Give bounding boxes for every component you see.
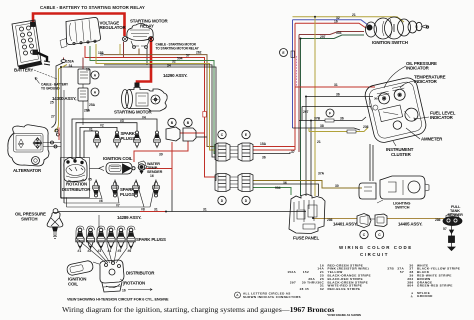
svg-text:30 THRU: 30 THRU xyxy=(302,280,318,284)
svg-text:32: 32 xyxy=(172,60,176,64)
svg-text:#1: #1 xyxy=(78,249,82,253)
svg-text:36: 36 xyxy=(336,93,340,97)
svg-text:CABLE - BATTERY TO STARTING MO: CABLE - BATTERY TO STARTING MOTOR RELAY xyxy=(40,5,145,10)
svg-text:297: 297 xyxy=(290,280,296,284)
svg-text:F: F xyxy=(329,111,331,115)
svg-text:#5: #5 xyxy=(88,178,92,182)
svg-text:504: 504 xyxy=(336,31,342,35)
svg-text:24: 24 xyxy=(69,64,73,68)
svg-text:31: 31 xyxy=(154,208,158,212)
svg-text:286: 286 xyxy=(435,218,441,222)
svg-text:10: 10 xyxy=(86,68,90,72)
svg-text:INDICATOR: INDICATOR xyxy=(406,66,430,71)
svg-text:PLUGS: PLUGS xyxy=(120,192,135,197)
svg-text:Wiring diagram for the ignitio: Wiring diagram for the ignition, startin… xyxy=(62,305,334,314)
svg-text:#6: #6 xyxy=(128,249,132,253)
svg-text:DISTRIBUTOR: DISTRIBUTOR xyxy=(62,187,91,192)
svg-text:DISTRIBUTOR: DISTRIBUTOR xyxy=(126,271,155,276)
svg-text:#1: #1 xyxy=(89,128,93,132)
svg-text:25: 25 xyxy=(50,101,54,105)
svg-text:GROUND: GROUND xyxy=(417,294,433,298)
svg-text:STARTING MOTOR: STARTING MOTOR xyxy=(114,110,152,115)
svg-text:37: 37 xyxy=(291,150,295,154)
svg-text:152: 152 xyxy=(303,270,309,274)
svg-text:31: 31 xyxy=(203,208,207,212)
svg-text:ROTATION: ROTATION xyxy=(66,182,87,187)
svg-text:#5: #5 xyxy=(118,249,122,253)
svg-text:SHOWN INDICATE CONNECTORS: SHOWN INDICATE CONNECTORS xyxy=(243,295,301,299)
svg-text:504: 504 xyxy=(177,57,183,61)
svg-text:SPARK PLUGS: SPARK PLUGS xyxy=(136,237,166,242)
svg-text:34: 34 xyxy=(167,63,171,67)
svg-text:36: 36 xyxy=(283,181,287,185)
svg-text:14290 ASSY.: 14290 ASSY. xyxy=(163,73,187,78)
svg-text:ROTATION: ROTATION xyxy=(124,281,145,286)
svg-text:FUSE PANEL: FUSE PANEL xyxy=(293,236,319,241)
svg-text:RED-BLUE STRIPE: RED-BLUE STRIPE xyxy=(328,287,361,291)
svg-text:904: 904 xyxy=(275,186,281,190)
svg-text:⊥: ⊥ xyxy=(410,294,413,298)
svg-text:#8: #8 xyxy=(141,207,145,211)
svg-text:#3: #3 xyxy=(120,119,124,123)
svg-text:236: 236 xyxy=(363,125,369,129)
svg-text:21: 21 xyxy=(352,13,356,17)
svg-text:VIEW SHOWING HI-TENSION CIRCUI: VIEW SHOWING HI-TENSION CIRCUIT FOR 6 CY… xyxy=(67,298,169,302)
svg-text:297: 297 xyxy=(303,110,309,114)
svg-text:SWITCH: SWITCH xyxy=(21,217,37,222)
svg-text:25A: 25A xyxy=(89,103,96,107)
svg-text:32: 32 xyxy=(320,287,324,291)
svg-text:14401 ASSY.: 14401 ASSY. xyxy=(333,222,357,227)
svg-text:IGNITION SWITCH: IGNITION SWITCH xyxy=(372,40,408,45)
svg-text:REGULATOR: REGULATOR xyxy=(100,25,127,30)
svg-text:31: 31 xyxy=(334,83,338,87)
svg-text:16: 16 xyxy=(334,20,338,24)
svg-text:AMMETER: AMMETER xyxy=(421,137,443,142)
svg-text:*OVER ENGINE AS SHOWN: *OVER ENGINE AS SHOWN xyxy=(327,313,361,317)
svg-text:14405 ASSY.: 14405 ASSY. xyxy=(398,222,422,227)
svg-text:286: 286 xyxy=(327,218,333,222)
svg-text:37A: 37A xyxy=(318,172,325,176)
svg-text:A: A xyxy=(236,293,239,297)
svg-text:SWITCH: SWITCH xyxy=(395,206,410,210)
svg-text:36: 36 xyxy=(262,156,266,160)
svg-text:15A: 15A xyxy=(260,142,267,146)
svg-text:#2: #2 xyxy=(100,123,104,127)
svg-text:297: 297 xyxy=(320,35,326,39)
svg-text:57: 57 xyxy=(186,54,190,58)
svg-text:28 45: 28 45 xyxy=(300,287,309,291)
svg-text:904: 904 xyxy=(407,284,413,288)
svg-text:COIL: COIL xyxy=(68,282,78,287)
svg-text:#2: #2 xyxy=(88,249,92,253)
svg-text:152A: 152A xyxy=(287,270,296,274)
svg-text:14300 ASSY,: 14300 ASSY, xyxy=(52,96,76,101)
svg-text:GREEN-RED STRIPE: GREEN-RED STRIPE xyxy=(417,284,453,288)
svg-text:CIRCUIT: CIRCUIT xyxy=(360,252,389,257)
svg-text:16: 16 xyxy=(122,288,126,292)
svg-text:16: 16 xyxy=(150,174,154,178)
svg-text:37B: 37B xyxy=(387,267,394,271)
svg-text:#6: #6 xyxy=(99,199,103,203)
svg-text:26A: 26A xyxy=(84,109,91,113)
svg-text:INDICATOR: INDICATOR xyxy=(414,79,438,84)
svg-text:153: 153 xyxy=(98,51,104,55)
svg-text:27: 27 xyxy=(51,115,55,119)
svg-text:CLUSTER: CLUSTER xyxy=(391,152,412,157)
svg-text:#7: #7 xyxy=(116,203,120,207)
svg-text:262: 262 xyxy=(196,51,202,55)
svg-text:14289 ASSY.: 14289 ASSY. xyxy=(117,215,141,220)
svg-text:21: 21 xyxy=(317,140,321,144)
svg-text:#4: #4 xyxy=(142,115,146,119)
svg-text:PLUGS: PLUGS xyxy=(121,136,136,141)
svg-text:ALTERNATOR: ALTERNATOR xyxy=(13,168,42,173)
svg-text:INDICATOR: INDICATOR xyxy=(430,115,454,120)
svg-text:57: 57 xyxy=(400,270,404,274)
svg-text:IGNITION COIL: IGNITION COIL xyxy=(103,156,133,161)
svg-text:30: 30 xyxy=(335,184,339,188)
svg-text:39: 39 xyxy=(159,153,163,157)
svg-text:RELAY: RELAY xyxy=(140,24,154,29)
svg-text:36: 36 xyxy=(340,117,344,121)
svg-text:TO GROUND: TO GROUND xyxy=(41,87,60,91)
svg-text:38: 38 xyxy=(320,124,324,128)
svg-text:37B: 37B xyxy=(314,117,321,121)
svg-text:WIRING COLOR CODE: WIRING COLOR CODE xyxy=(339,245,413,250)
svg-text:TO STARTING MOTOR RELAY: TO STARTING MOTOR RELAY xyxy=(156,47,200,51)
svg-text:57: 57 xyxy=(443,227,447,231)
